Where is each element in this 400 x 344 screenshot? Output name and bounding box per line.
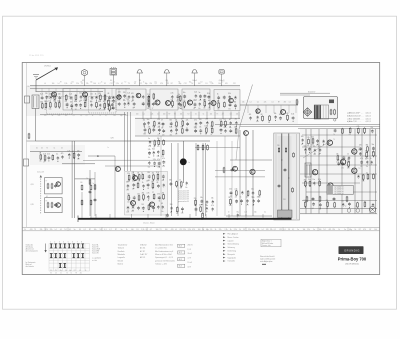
svg-text:gn: gn xyxy=(345,206,347,208)
svg-text:34 21: 34 21 xyxy=(179,259,183,261)
svg-text:220: 220 xyxy=(229,188,232,190)
svg-text:22k: 22k xyxy=(242,102,245,104)
svg-text:470: 470 xyxy=(157,146,160,148)
svg-text:50u: 50u xyxy=(308,179,311,181)
svg-text:R7: R7 xyxy=(60,81,62,83)
svg-text:68p: 68p xyxy=(120,115,123,117)
svg-text:100: 100 xyxy=(175,134,178,136)
svg-text:4,7: 4,7 xyxy=(109,229,111,231)
svg-text:220: 220 xyxy=(203,99,206,101)
svg-text:gemessen bei 6V: gemessen bei 6V xyxy=(178,192,189,194)
svg-text:10k: 10k xyxy=(175,120,178,122)
svg-text:2,2k: 2,2k xyxy=(244,212,247,214)
svg-text:68p: 68p xyxy=(69,270,71,272)
svg-text:4,7: 4,7 xyxy=(98,83,100,85)
svg-text:22k: 22k xyxy=(79,93,82,95)
svg-text:4,5 2,1: 4,5 2,1 xyxy=(366,121,371,123)
svg-text:47k: 47k xyxy=(194,120,197,122)
svg-text:220: 220 xyxy=(246,197,249,199)
svg-text:50u: 50u xyxy=(147,119,150,121)
svg-text:T3: T3 xyxy=(160,229,162,231)
svg-text:5n: 5n xyxy=(148,138,150,140)
svg-text:gemessen bei 6V: gemessen bei 6V xyxy=(178,199,189,201)
svg-text:GRUNDIG: GRUNDIG xyxy=(344,249,360,253)
svg-text:100: 100 xyxy=(319,229,322,231)
svg-text:Chassis , Masse: Chassis , Masse xyxy=(143,223,155,225)
svg-text:R7: R7 xyxy=(178,81,180,83)
svg-text:4,7k: 4,7k xyxy=(162,158,165,160)
svg-text:68: 68 xyxy=(205,204,207,206)
svg-text:T7: T7 xyxy=(46,181,48,183)
svg-text:100: 100 xyxy=(131,229,134,231)
svg-text:0,1: 0,1 xyxy=(274,229,276,231)
svg-text:L4: L4 xyxy=(71,83,73,85)
svg-text:47k: 47k xyxy=(349,134,352,136)
svg-text:3,3k: 3,3k xyxy=(229,205,232,207)
svg-text:100: 100 xyxy=(93,83,96,85)
svg-text:10k: 10k xyxy=(108,104,111,106)
svg-text:10k: 10k xyxy=(94,229,97,231)
svg-text:470: 470 xyxy=(45,229,48,231)
svg-text:0,2 1,4 6,0 9,0: 0,2 1,4 6,0 9,0 xyxy=(335,191,344,193)
svg-text:34 21: 34 21 xyxy=(179,266,183,268)
svg-text:b) Batterie 6x1,5V . . .: b) Batterie 6x1,5V . . . xyxy=(347,115,364,118)
svg-text:2,2k: 2,2k xyxy=(171,93,174,95)
svg-text:5n: 5n xyxy=(99,109,101,111)
svg-text:3,3k: 3,3k xyxy=(228,93,231,95)
svg-text:470: 470 xyxy=(160,83,163,85)
svg-text:220: 220 xyxy=(252,197,255,199)
svg-text:3,3k: 3,3k xyxy=(291,114,294,116)
svg-text:100: 100 xyxy=(279,114,282,116)
svg-text:330: 330 xyxy=(228,108,231,110)
svg-text:22k: 22k xyxy=(257,229,260,231)
svg-text:4,7k: 4,7k xyxy=(211,205,214,207)
svg-text:22k: 22k xyxy=(127,99,130,101)
svg-text:0,1: 0,1 xyxy=(155,83,157,85)
svg-text:3,2V: 3,2V xyxy=(111,137,114,139)
svg-text:10k: 10k xyxy=(268,122,271,124)
svg-text:R7: R7 xyxy=(369,229,371,231)
svg-text:22k: 22k xyxy=(40,229,43,231)
svg-text:0,1: 0,1 xyxy=(224,119,226,121)
svg-text:10n: 10n xyxy=(147,108,150,110)
svg-text:2,2k: 2,2k xyxy=(225,229,228,231)
svg-text:5n: 5n xyxy=(313,229,315,231)
svg-text:30 mV: 30 mV xyxy=(188,253,192,255)
svg-text:0,2 1,4 6,0 9,0: 0,2 1,4 6,0 9,0 xyxy=(335,193,344,195)
svg-text:5n: 5n xyxy=(297,229,299,231)
svg-text:2,2k: 2,2k xyxy=(235,189,238,191)
svg-text:100: 100 xyxy=(165,229,168,231)
svg-text:4,7: 4,7 xyxy=(105,115,107,117)
svg-text:100: 100 xyxy=(50,270,52,272)
svg-text:R7: R7 xyxy=(89,229,91,231)
svg-text:8,2k: 8,2k xyxy=(49,108,52,110)
svg-text:(GLOR 4851/2): (GLOR 4851/2) xyxy=(345,264,359,266)
svg-text:8,2k: 8,2k xyxy=(40,93,43,95)
svg-text:5n: 5n xyxy=(132,100,134,102)
svg-text:68p: 68p xyxy=(179,83,182,85)
svg-text:10k: 10k xyxy=(234,127,237,129)
svg-text:470: 470 xyxy=(142,193,145,195)
svg-text:La: La xyxy=(188,162,190,164)
svg-text:10k: 10k xyxy=(218,83,221,85)
svg-text:47k: 47k xyxy=(235,119,238,121)
svg-text:o = frei: o = frei xyxy=(92,260,98,262)
svg-text:15k: 15k xyxy=(126,190,129,192)
svg-text:T3: T3 xyxy=(99,115,101,117)
svg-text:27: 27 xyxy=(123,100,125,102)
svg-text:1k: 1k xyxy=(65,100,67,102)
svg-text:L4: L4 xyxy=(54,148,56,150)
svg-text:1k: 1k xyxy=(95,93,97,95)
svg-text:27: 27 xyxy=(152,126,154,128)
svg-text:D1: D1 xyxy=(36,148,38,150)
svg-text:47k: 47k xyxy=(148,127,151,129)
svg-text:4,7: 4,7 xyxy=(121,83,123,85)
svg-text:100: 100 xyxy=(49,93,52,95)
svg-text:4,7k: 4,7k xyxy=(43,154,46,156)
svg-text:47k: 47k xyxy=(162,156,165,158)
svg-text:27: 27 xyxy=(152,192,154,194)
svg-text:1k: 1k xyxy=(142,182,144,184)
svg-text:10n: 10n xyxy=(131,203,134,205)
svg-text:4,7k: 4,7k xyxy=(360,158,363,160)
svg-text:240: 240 xyxy=(27,86,30,88)
svg-text:5n: 5n xyxy=(167,81,169,83)
svg-text:1k: 1k xyxy=(79,101,81,103)
svg-text:4,7k: 4,7k xyxy=(246,205,249,207)
svg-text:1k: 1k xyxy=(370,158,372,160)
svg-text:Tr2: Tr2 xyxy=(221,81,223,83)
svg-text:50u: 50u xyxy=(251,189,254,191)
svg-text:T8: T8 xyxy=(46,201,48,203)
svg-text:Tr2: Tr2 xyxy=(50,273,52,275)
svg-text:10n: 10n xyxy=(185,187,188,189)
svg-text:15k: 15k xyxy=(152,173,155,175)
svg-text:22k: 22k xyxy=(264,102,267,104)
svg-text:0,1: 0,1 xyxy=(312,208,314,210)
svg-text:10k: 10k xyxy=(83,100,86,102)
svg-text:2,2k: 2,2k xyxy=(116,83,119,85)
svg-text:10k: 10k xyxy=(107,106,110,108)
svg-text:D1: D1 xyxy=(206,83,208,85)
svg-text:0,3V: 0,3V xyxy=(31,204,34,206)
svg-text:2,2k: 2,2k xyxy=(234,229,237,231)
svg-text:68p: 68p xyxy=(206,229,209,231)
svg-text:1k: 1k xyxy=(126,229,128,231)
svg-text:15k: 15k xyxy=(203,107,206,109)
svg-text:C12: C12 xyxy=(139,83,142,85)
svg-text:22k: 22k xyxy=(80,273,82,275)
svg-text:3,3k: 3,3k xyxy=(181,212,184,214)
svg-text:Langwelle: Langwelle xyxy=(118,257,125,259)
svg-text:0,1: 0,1 xyxy=(79,270,81,272)
svg-text:22k: 22k xyxy=(50,229,53,231)
svg-text:10k: 10k xyxy=(210,114,213,116)
svg-text:4,7k: 4,7k xyxy=(357,126,360,128)
svg-text:Rundfunk: Rundfunk xyxy=(118,251,125,253)
svg-text:L4: L4 xyxy=(146,229,148,231)
svg-text:15k: 15k xyxy=(341,200,344,202)
svg-text:Tonband: Tonband xyxy=(118,248,124,250)
svg-text:470: 470 xyxy=(61,153,64,155)
svg-text:Tr2: Tr2 xyxy=(64,229,66,231)
svg-text:10k: 10k xyxy=(113,81,116,83)
svg-text:230 mV: 230 mV xyxy=(188,244,193,246)
svg-text:68: 68 xyxy=(229,119,231,121)
svg-text:50u: 50u xyxy=(301,136,304,138)
svg-text:2,2k: 2,2k xyxy=(127,93,130,95)
svg-text:10k: 10k xyxy=(319,209,322,211)
svg-text:22k: 22k xyxy=(76,83,79,85)
svg-text:5n: 5n xyxy=(240,197,242,199)
svg-text:330: 330 xyxy=(170,204,173,206)
svg-text:68: 68 xyxy=(211,134,213,136)
svg-text:330: 330 xyxy=(126,182,129,184)
svg-text:3,3k: 3,3k xyxy=(162,166,165,168)
svg-text:L4: L4 xyxy=(81,83,83,85)
svg-text:470: 470 xyxy=(98,101,101,103)
svg-text:22k: 22k xyxy=(154,81,157,83)
svg-text:22k: 22k xyxy=(270,229,273,231)
svg-text:68: 68 xyxy=(157,182,159,184)
svg-text:10n: 10n xyxy=(49,100,52,102)
svg-text:100: 100 xyxy=(313,154,316,156)
svg-text:15k: 15k xyxy=(107,101,110,103)
svg-text:10n: 10n xyxy=(90,94,93,96)
svg-text:0,1: 0,1 xyxy=(158,134,160,136)
svg-text:68: 68 xyxy=(318,154,320,156)
svg-text:T3: T3 xyxy=(128,83,130,85)
svg-text:C12: C12 xyxy=(179,229,182,231)
svg-text:D1: D1 xyxy=(55,273,57,275)
svg-text:68: 68 xyxy=(108,93,110,95)
svg-text:D1: D1 xyxy=(61,148,63,150)
svg-text:47k: 47k xyxy=(162,192,165,194)
svg-text:34 21: 34 21 xyxy=(179,252,183,254)
svg-text:50u: 50u xyxy=(210,126,213,128)
svg-text:C12: C12 xyxy=(200,81,203,83)
svg-text:8,2k: 8,2k xyxy=(156,180,159,182)
svg-text:2,2k: 2,2k xyxy=(141,229,144,231)
svg-text:4,7k: 4,7k xyxy=(147,193,150,195)
svg-text:R7: R7 xyxy=(115,229,117,231)
svg-text:8,2k: 8,2k xyxy=(256,121,259,123)
svg-text:10n: 10n xyxy=(365,158,368,160)
svg-text:2,2k: 2,2k xyxy=(211,83,214,85)
svg-text:100: 100 xyxy=(217,109,220,111)
svg-text:4,7: 4,7 xyxy=(86,115,88,117)
svg-text:0,1: 0,1 xyxy=(264,212,266,214)
svg-text:5n: 5n xyxy=(143,125,145,127)
svg-text:22k: 22k xyxy=(307,229,310,231)
svg-text:220: 220 xyxy=(77,151,80,153)
svg-text:R7: R7 xyxy=(76,273,78,275)
svg-text:T5: T5 xyxy=(129,198,131,200)
svg-text:Tonabnehmer: Tonabnehmer xyxy=(118,244,128,246)
svg-text:4,7: 4,7 xyxy=(222,114,224,116)
svg-text:3,3k: 3,3k xyxy=(158,167,161,169)
svg-text:22k: 22k xyxy=(131,211,134,213)
svg-text:5n: 5n xyxy=(133,108,135,110)
svg-text:2,2k: 2,2k xyxy=(147,94,150,96)
svg-text:5n: 5n xyxy=(202,229,204,231)
svg-text:T3: T3 xyxy=(46,148,48,150)
svg-text:d) Akku 7,5V . . . . .: d) Akku 7,5V . . . . . xyxy=(347,120,362,123)
svg-text:50u: 50u xyxy=(175,126,178,128)
svg-text:1k: 1k xyxy=(178,94,180,96)
svg-text:1k: 1k xyxy=(54,101,56,103)
svg-text:10k: 10k xyxy=(303,229,306,231)
svg-text:47k: 47k xyxy=(304,179,307,181)
svg-text:47k: 47k xyxy=(183,108,186,110)
svg-text:1k: 1k xyxy=(347,154,349,156)
svg-text:C30: C30 xyxy=(277,145,280,147)
svg-text:D1: D1 xyxy=(137,229,139,231)
svg-text:L4: L4 xyxy=(250,102,252,104)
svg-text:0,1: 0,1 xyxy=(171,99,173,101)
svg-text:68: 68 xyxy=(137,173,139,175)
svg-text:15k: 15k xyxy=(366,166,369,168)
svg-text:10n: 10n xyxy=(111,104,114,106)
svg-text:22k: 22k xyxy=(44,101,47,103)
svg-text:68: 68 xyxy=(103,101,105,103)
svg-text:100: 100 xyxy=(311,145,314,147)
svg-text:1k: 1k xyxy=(256,113,258,115)
svg-text:470: 470 xyxy=(329,229,332,231)
svg-text:3,3k: 3,3k xyxy=(157,156,160,158)
svg-text:Tr2: Tr2 xyxy=(187,114,189,116)
svg-text:0,1: 0,1 xyxy=(69,229,71,231)
svg-text:0,15-0,4V: 0,15-0,4V xyxy=(37,172,45,174)
svg-text:100: 100 xyxy=(198,229,201,231)
svg-text:10k: 10k xyxy=(274,113,277,115)
svg-text:5n: 5n xyxy=(93,183,95,185)
svg-text:8,2k: 8,2k xyxy=(207,93,210,95)
svg-text:R7: R7 xyxy=(135,81,137,83)
svg-text:220: 220 xyxy=(107,109,110,111)
svg-text:12 mV: 12 mV xyxy=(188,262,192,264)
svg-text:0,1: 0,1 xyxy=(41,102,43,104)
svg-text:68p: 68p xyxy=(349,229,352,231)
svg-text:10k: 10k xyxy=(113,115,116,117)
svg-text:220: 220 xyxy=(58,94,61,96)
svg-text:1k: 1k xyxy=(215,229,217,231)
svg-text:3,3k: 3,3k xyxy=(148,146,151,148)
svg-text:D1: D1 xyxy=(288,229,290,231)
svg-text:27: 27 xyxy=(161,120,163,122)
svg-text:10k: 10k xyxy=(39,161,42,163)
svg-text:1k: 1k xyxy=(239,229,241,231)
svg-text:L4: L4 xyxy=(55,229,57,231)
svg-text:50u: 50u xyxy=(307,145,310,147)
svg-text:10k: 10k xyxy=(236,114,239,116)
svg-text:4,7k: 4,7k xyxy=(47,153,50,155)
svg-text:T9: T9 xyxy=(333,139,335,141)
svg-text:R7: R7 xyxy=(169,114,171,116)
svg-text:0,1: 0,1 xyxy=(80,115,82,117)
svg-text:0,1: 0,1 xyxy=(289,102,291,104)
svg-text:22k: 22k xyxy=(332,229,335,231)
svg-text:gemessen bei 6V: gemessen bei 6V xyxy=(178,197,189,199)
svg-text:47k: 47k xyxy=(249,114,252,116)
svg-text:330: 330 xyxy=(143,133,146,135)
svg-text:15k: 15k xyxy=(199,126,202,128)
svg-text:0,1: 0,1 xyxy=(73,115,75,117)
svg-text:R7: R7 xyxy=(359,229,361,231)
svg-text:68p: 68p xyxy=(189,81,192,83)
svg-text:1k: 1k xyxy=(355,229,357,231)
svg-text:UKW Ant: UKW Ant xyxy=(44,65,51,68)
svg-text:10k: 10k xyxy=(205,126,208,128)
svg-text:4,5 2,1: 4,5 2,1 xyxy=(366,116,371,118)
svg-text:8,2k: 8,2k xyxy=(169,126,172,128)
svg-text:1k: 1k xyxy=(24,229,26,231)
svg-text:15k: 15k xyxy=(157,119,160,121)
svg-text:4,5 2,1: 4,5 2,1 xyxy=(366,118,371,120)
svg-text:1k: 1k xyxy=(230,229,232,231)
svg-text:0,1: 0,1 xyxy=(230,114,232,116)
svg-text:68p: 68p xyxy=(90,81,93,83)
svg-text:3,3k: 3,3k xyxy=(199,205,202,207)
svg-text:470: 470 xyxy=(55,270,57,272)
svg-text:470: 470 xyxy=(30,229,33,231)
svg-text:3,3k: 3,3k xyxy=(153,159,156,161)
svg-text:470: 470 xyxy=(157,193,160,195)
svg-text:100: 100 xyxy=(71,81,74,83)
svg-text:50u: 50u xyxy=(304,145,307,147)
svg-text:0,1: 0,1 xyxy=(257,102,259,104)
svg-text:470: 470 xyxy=(162,135,165,137)
svg-text:D1: D1 xyxy=(210,229,212,231)
svg-text:Prima-Boy 700: Prima-Boy 700 xyxy=(338,257,367,262)
svg-text:19 da 4101 270: 19 da 4101 270 xyxy=(29,55,44,57)
svg-text:5n: 5n xyxy=(179,180,181,182)
svg-text:47k: 47k xyxy=(99,93,102,95)
svg-text:c) Netz 110/220V . . . .: c) Netz 110/220V . . . . xyxy=(347,117,364,120)
svg-text:470: 470 xyxy=(131,93,134,95)
svg-text:0,1: 0,1 xyxy=(56,154,58,156)
svg-text:220: 220 xyxy=(193,100,196,102)
svg-text:10k: 10k xyxy=(219,126,222,128)
svg-text:10k: 10k xyxy=(200,197,203,199)
svg-text:10k: 10k xyxy=(365,150,368,152)
svg-text:22k: 22k xyxy=(183,229,186,231)
svg-text:22k: 22k xyxy=(371,127,374,129)
svg-text:68p: 68p xyxy=(145,83,148,85)
svg-text:4,7k: 4,7k xyxy=(132,181,135,183)
svg-text:330: 330 xyxy=(169,180,172,182)
svg-text:L4: L4 xyxy=(175,229,177,231)
svg-text:4,7: 4,7 xyxy=(150,229,152,231)
svg-text:100: 100 xyxy=(52,83,55,85)
svg-text:5n: 5n xyxy=(228,212,230,214)
svg-text:47k: 47k xyxy=(162,180,165,182)
svg-text:8,2k: 8,2k xyxy=(318,179,321,181)
svg-text:gemessen bei 6V: gemessen bei 6V xyxy=(178,201,189,203)
svg-text:330: 330 xyxy=(234,101,237,103)
svg-text:2,2k: 2,2k xyxy=(188,229,191,231)
svg-text:T12: T12 xyxy=(358,168,361,170)
svg-text:R7: R7 xyxy=(243,229,245,231)
svg-text:22k: 22k xyxy=(194,127,197,129)
svg-text:a) Allstrom 220V~ . . .: a) Allstrom 220V~ . . . xyxy=(347,112,364,115)
svg-text:220: 220 xyxy=(123,92,126,94)
svg-text:22k: 22k xyxy=(186,120,189,122)
svg-text:5n: 5n xyxy=(181,119,183,121)
